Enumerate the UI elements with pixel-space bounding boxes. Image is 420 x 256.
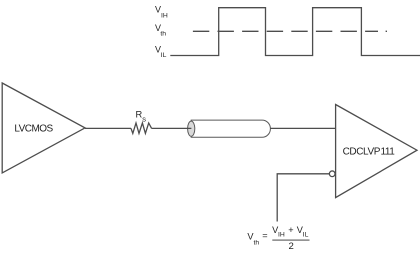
wire Vth node to inverting input (277, 174, 329, 222)
svg-text:th: th (160, 30, 166, 37)
svg-text:IH: IH (161, 12, 168, 19)
transmission line left end cap (188, 121, 195, 136)
svg-text:=: = (262, 231, 267, 241)
LVCMOS driver buffer U1 (2, 83, 85, 173)
waveform square wave (170, 8, 420, 56)
waveform threshold dashed line (193, 30, 378, 32)
svg-text:2: 2 (289, 241, 294, 252)
wire LVCMOS output to resistor (85, 127, 131, 129)
resistor Rs (131, 123, 152, 133)
svg-text:IL: IL (161, 52, 167, 59)
formula fraction bar (272, 239, 309, 241)
svg-text:s: s (142, 115, 146, 124)
svg-text:IH: IH (278, 231, 285, 238)
svg-text:+: + (288, 225, 293, 235)
transmission line body (191, 120, 270, 137)
waveform threshold end dot (386, 30, 387, 32)
svg-text:th: th (254, 240, 260, 247)
wire transmission line to receiver (270, 127, 335, 129)
inverting input bubble (329, 171, 335, 177)
svg-text:CDCLVP 111: CDCLVP 111 (343, 147, 396, 158)
svg-text:LVCMOS: LVCMOS (14, 124, 53, 135)
CDCLVP111 receiver U2 (336, 105, 417, 198)
svg-text:IL: IL (303, 231, 309, 238)
wire resistor to transmission line (152, 127, 192, 129)
